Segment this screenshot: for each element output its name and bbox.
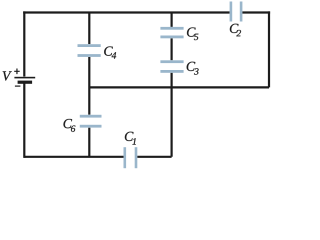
label C3 — [187, 62, 199, 75]
label C6 — [64, 119, 76, 132]
wire branch B bottom (C3 to bottom wire) — [171, 73, 173, 157]
capacitor C2 — [230, 2, 243, 22]
label C5 — [187, 27, 198, 40]
wire top left segment — [23, 11, 229, 13]
wire branch A bottom (C6 to bottom wire) — [88, 128, 90, 157]
capacitor C1 — [124, 147, 138, 168]
wire bottom right segment — [137, 156, 171, 158]
battery V negative plate — [18, 81, 32, 84]
label V — [3, 71, 12, 80]
capacitor C6 — [80, 115, 102, 128]
wire left below battery — [23, 83, 25, 157]
wire right — [268, 11, 270, 87]
battery plus sign — [14, 69, 20, 75]
wire branch A middle (C4 to C6) — [88, 57, 90, 115]
wire branch B top (top wire to C5) — [171, 13, 173, 27]
label C4 — [104, 46, 116, 58]
battery V positive plate — [14, 77, 35, 79]
wire bottom left segment — [24, 156, 123, 158]
battery minus sign — [15, 85, 21, 87]
label C1 — [125, 132, 136, 145]
wire middle horizontal — [89, 86, 269, 88]
wire top right segment — [242, 11, 270, 13]
wire branch B middle (C5 to C3) — [171, 38, 173, 60]
wire left above battery — [23, 11, 25, 76]
capacitor C3 — [160, 60, 183, 73]
capacitor C5 — [160, 27, 183, 38]
label C2 — [230, 24, 241, 37]
wire branch A top (top wire to C4) — [88, 13, 90, 45]
capacitor C4 — [78, 44, 101, 57]
